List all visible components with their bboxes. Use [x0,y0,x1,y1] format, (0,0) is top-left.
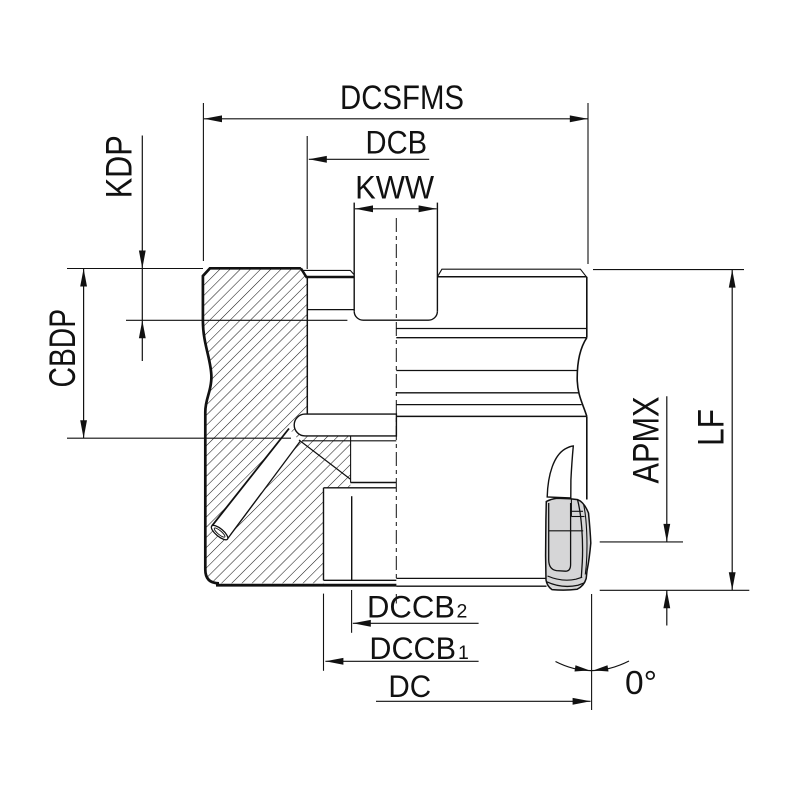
hatch boundary vertical below groove [350,436,352,483]
DCCB2 extension line [351,590,353,633]
body bottom face thin line (right half) [396,577,546,579]
wedge curves at insert bottom [547,582,585,587]
CBDP lower reference line [67,437,291,439]
LF top reference line [593,269,744,271]
DCSFMS dimension line [204,118,588,120]
pocket inner vertical edge [351,496,353,580]
DCCB1 extension line [323,594,325,671]
coolant hole end cap (ellipse) [209,523,230,542]
annular groove (white bar with rounded left end) [294,414,396,436]
body right edge upper [586,277,588,338]
DCSFMS extension line left [202,103,204,261]
top face reference line (left of body) [67,268,203,270]
svg-text:DCCB: DCCB [369,630,456,666]
top rim right half: chamfer far edge [437,269,586,277]
key slot bottom with rounded corners [354,311,437,320]
body outline left (thick): top face, chamfers, left edge with waist, bottom corner [203,268,301,583]
KDP dimension verticals and arrows [141,136,143,269]
insert body inner outline [549,503,571,571]
top-right chamfer of sectioned rim [301,268,306,277]
right half surface lines [396,328,587,330]
APMX upper reference line [600,541,683,543]
key slot right wall + extension line [436,203,438,312]
svg-text:DCCB: DCCB [367,588,455,624]
svg-text:KWW: KWW [355,169,434,205]
pocket left wall [323,488,325,581]
CBDP dimension line [83,269,85,439]
pocket bottom line [324,579,397,581]
body right edge lower [586,416,588,499]
svg-text:2: 2 [457,600,468,622]
step surface (thick) left of key slot [306,276,355,279]
counterbore wall [306,277,308,414]
DCCB2 dimension line [353,622,479,624]
DC extension line [591,594,593,710]
0 degree angle arc [556,661,630,671]
counterbore floor left of slot [307,309,354,311]
svg-text:DCB: DCB [366,125,428,161]
step chamfer far edge (thin) [302,270,355,274]
svg-text:DCSFMS: DCSFMS [340,79,464,117]
DC dimension line [376,700,591,702]
LF dimension line [731,270,733,591]
DCSFMS extension line right [587,103,589,264]
pocket top edge lines [350,482,396,484]
groove far-edge line [302,440,396,442]
coolant hole inner wall line [231,493,262,535]
bottom chamfer line (right half) [396,585,546,587]
svg-text:DC: DC [388,668,431,704]
svg-text:APMX: APMX [626,397,667,484]
insert assembly (gray) [546,498,591,590]
svg-text:CBDP: CBDP [42,309,83,388]
svg-text:KDP: KDP [99,135,140,198]
APMX dimension [666,396,668,542]
svg-text:LF: LF [691,409,732,446]
DCCB1 dimension line [325,660,478,662]
coolant hole (white cut through hatch) [212,429,300,540]
svg-text:0°: 0° [625,665,657,702]
svg-text:1: 1 [458,642,469,664]
LF / APMX bottom reference line [600,589,750,591]
DCB dimension line [309,158,429,160]
centerline (dash-dot) [395,218,397,582]
hatched cross-section of cutter body (left half) [203,268,351,583]
key slot left wall + extension line [353,203,355,312]
insert inner lines [578,500,583,578]
top rim right half: face line [437,276,586,278]
insert flute (white sliver) [547,446,573,498]
45-degree internal edge [299,440,351,480]
KWW dimension line [355,208,437,210]
DCB extension line [306,136,308,269]
body bottom face thick (sectioned half) [216,584,396,587]
KDP lower reference line [126,319,347,321]
body right edge neck curve [577,338,587,417]
